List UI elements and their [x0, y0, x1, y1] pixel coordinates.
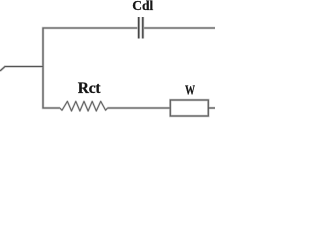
svg-text:Rct: Rct	[78, 80, 102, 97]
svg-text:Cdl: Cdl	[132, 0, 153, 13]
svg-text:W: W	[185, 82, 195, 98]
